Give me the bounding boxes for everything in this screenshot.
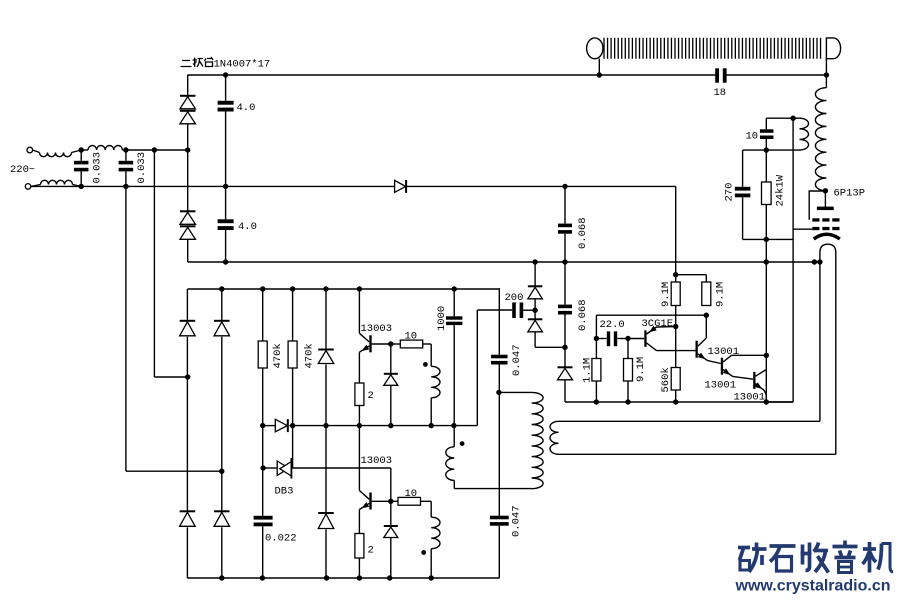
node heater left on y262 rail <box>812 259 817 264</box>
inductor filter choke Lc <box>88 146 122 151</box>
diode D15 <box>528 318 543 320</box>
resistor 9.1M third <box>627 339 629 359</box>
svg-text:10: 10 <box>405 488 418 500</box>
resistor 10 upper <box>400 340 422 348</box>
node x534 mid <box>532 308 537 313</box>
svg-text:470k: 470k <box>304 343 316 368</box>
terminal AC neutral <box>25 184 31 190</box>
wire mid rail y425 left part <box>263 425 276 427</box>
wire grid feed line y118 <box>766 117 799 119</box>
node Q1 base junction <box>388 341 393 346</box>
tube cathode <box>814 234 840 239</box>
wire bottom rail <box>187 577 499 579</box>
wire top filter node <box>81 149 88 151</box>
node DB3 wire tap <box>260 465 265 470</box>
diode D2 <box>180 110 196 112</box>
node plate junction <box>823 188 828 193</box>
svg-text:200: 200 <box>505 292 524 304</box>
capacitor 200 <box>512 302 516 318</box>
node emitter junction 3CG1E <box>673 324 678 329</box>
wire antenna coil left lead <box>598 59 600 76</box>
capacitor 0.068 upper <box>564 186 566 223</box>
svg-text:4.0: 4.0 <box>238 221 257 233</box>
diode D11 (series in mid rail) <box>275 419 287 432</box>
wire y150 cathode line <box>743 149 801 151</box>
wire mid rail y425 right part <box>289 425 477 427</box>
capacitor 0.022 <box>254 516 273 520</box>
node x766 ground <box>764 399 769 404</box>
wire bridge column bottom <box>187 239 189 262</box>
svg-text:9.1M: 9.1M <box>715 282 727 307</box>
capacitor 4.0 lower <box>218 219 234 223</box>
node Q5 collector on x766 <box>764 353 769 358</box>
capacitor 1000 <box>452 286 457 291</box>
capacitor 0.068 lower <box>558 305 572 309</box>
svg-text:13001: 13001 <box>705 380 737 392</box>
svg-text:www.crystalradio.cn: www.crystalradio.cn <box>735 578 891 595</box>
svg-text:2: 2 <box>368 545 374 557</box>
diode D16 <box>558 366 573 368</box>
wire x534 column <box>532 259 537 264</box>
node x766 y150 <box>764 147 769 152</box>
svg-text:0.033: 0.033 <box>92 152 104 184</box>
svg-text:13003: 13003 <box>361 455 393 467</box>
node y471 on second column <box>219 469 224 474</box>
wire long vertical x793 (grid line) <box>792 118 794 401</box>
svg-text:270: 270 <box>724 183 736 202</box>
svg-text:13001: 13001 <box>708 346 740 358</box>
svg-text:0.068: 0.068 <box>577 217 589 249</box>
wire to second filter node <box>122 149 187 151</box>
node Q2 base junction <box>388 499 393 504</box>
wire y239 line <box>743 238 794 240</box>
capacitor 18 (series in top rail) <box>715 68 719 82</box>
capacitor 22.0 <box>596 338 606 340</box>
diode D5 <box>180 320 196 322</box>
transformer T1 primary <box>499 391 532 393</box>
wire x499 column from box rail <box>498 288 501 290</box>
label diodes 1N4007*17 <box>181 57 214 67</box>
resistor 9.1M second <box>702 282 711 306</box>
capacitor 0.047 lower <box>490 516 509 520</box>
wire DB3 branch <box>263 467 277 469</box>
node filter tap x154 <box>152 147 157 152</box>
capacitor 0.033 first <box>74 161 89 165</box>
diode D1 <box>180 95 196 97</box>
capacitor 0.033 second <box>123 147 128 152</box>
node filter cap1 top <box>79 147 84 152</box>
svg-text:DB3: DB3 <box>275 486 294 498</box>
svg-text:470k: 470k <box>272 343 284 368</box>
tube heater <box>820 244 836 454</box>
wire AC bottom rail continues <box>407 185 676 187</box>
resistor 2 upper <box>355 383 364 406</box>
watermark crystalradio logo <box>738 541 893 573</box>
svg-text:220~: 220~ <box>10 164 35 176</box>
svg-text:24k1W: 24k1W <box>775 174 787 206</box>
svg-text:0.033: 0.033 <box>136 152 148 184</box>
wire oscillator ground rail y402 <box>565 401 793 403</box>
inductor base drive coil L2 <box>430 344 432 366</box>
wire antenna coil right lead <box>825 59 827 75</box>
svg-text:10: 10 <box>405 331 418 343</box>
svg-text:3CG1E: 3CG1E <box>642 318 674 330</box>
capacitor 4.0 upper <box>225 75 227 101</box>
node split to 9.1M pair <box>673 272 678 277</box>
node x565 y347 <box>562 345 567 350</box>
diac DB3 <box>277 461 289 476</box>
node bottom rail / 0.068a <box>562 184 567 189</box>
wire second column x221.8 <box>219 286 224 291</box>
svg-text:9.1M: 9.1M <box>660 282 672 307</box>
wire corner x676 down <box>675 186 677 282</box>
node bottom rail / cap C4.0b <box>223 184 228 189</box>
diode D4 <box>180 225 196 227</box>
svg-text:13001: 13001 <box>734 392 766 404</box>
node top rail / cap C4.0a <box>223 72 228 77</box>
resistor 470k second <box>290 286 295 291</box>
node x793 top <box>790 116 795 121</box>
tube screen grid row <box>812 218 819 221</box>
svg-text:560k: 560k <box>660 367 672 392</box>
inductor feedback winding L5 (grid) <box>800 118 809 150</box>
svg-text:0.068: 0.068 <box>577 299 589 331</box>
svg-text:1.1M: 1.1M <box>582 358 594 383</box>
node top rail right / coil right lead <box>824 72 829 77</box>
diode D7 <box>214 320 230 322</box>
svg-text:0.047: 0.047 <box>511 344 523 376</box>
svg-text:4.0: 4.0 <box>237 102 256 114</box>
wire corner x793 bottom <box>766 401 793 403</box>
node mid rail left end <box>260 423 265 428</box>
node 22.0 right / Q3 base <box>625 336 630 341</box>
diode D14 <box>528 285 543 287</box>
wire secondary bottom to heater leg <box>559 453 836 455</box>
node x565 on y262 rail <box>562 259 567 264</box>
capacitor 0.047 upper <box>491 355 508 359</box>
diode D-rail (series, pointing right) <box>395 180 406 192</box>
transformer T1 secondary <box>550 421 559 454</box>
resistor 24k1W <box>765 150 767 182</box>
wire oscillator frame y315 <box>596 314 706 316</box>
diode D9 x326 <box>323 286 328 291</box>
svg-text:0.022: 0.022 <box>265 533 297 545</box>
node transformer primary top <box>496 390 501 395</box>
wire x766 column to oscillator <box>765 239 767 402</box>
terminal AC live <box>27 147 33 153</box>
wire secondary top to heater leg <box>559 420 820 422</box>
svg-text:9.1M: 9.1M <box>635 357 647 382</box>
svg-text:0.047: 0.047 <box>511 505 523 537</box>
svg-text:18: 18 <box>714 87 727 99</box>
resistor 10 lower <box>398 497 421 505</box>
wire lower box left column <box>186 289 188 321</box>
zener D13 lower <box>390 501 392 526</box>
diode D3 <box>180 210 196 212</box>
tube anode <box>824 191 826 207</box>
wire DB3 to Q2 base node <box>291 467 390 469</box>
wire corner up to 200-cap line <box>476 310 478 426</box>
node 22.0 left <box>594 336 599 341</box>
node 9.1M second bottom <box>704 313 709 318</box>
wire bridge column top <box>187 75 189 96</box>
resistor 470k first <box>260 286 265 291</box>
node y377 on left column <box>185 374 190 379</box>
wire lower box top rail y289 <box>187 288 500 290</box>
inductor base drive coil L3 <box>430 501 432 517</box>
diode D10 x326 lower <box>318 512 334 514</box>
node x766 y262 <box>764 259 769 264</box>
wire AC bottom rail <box>31 185 395 187</box>
wire between diode pairs <box>187 124 189 212</box>
inductor feedback winding L4 <box>460 441 465 446</box>
node top rail / antenna coil left lead <box>597 72 602 77</box>
antenna solenoid coil L1 <box>604 38 821 59</box>
inductor line choke Lb (bottom) <box>31 185 41 187</box>
diode D6 <box>180 510 196 512</box>
wire from filter x126 down to y471 <box>125 186 127 471</box>
wire from filter x154 down to y377 <box>153 150 155 377</box>
wire anode-screen bracket <box>809 191 825 220</box>
svg-text:1N4007*17: 1N4007*17 <box>214 59 271 71</box>
zener D12 upper <box>390 344 392 374</box>
diode D8 <box>214 510 230 512</box>
wire top rail B+ <box>187 74 716 76</box>
capacitor 10 <box>765 118 767 129</box>
wire control grid lead <box>793 228 812 230</box>
resistor 2 lower <box>355 534 364 559</box>
resistor 1.1M <box>595 339 597 359</box>
svg-text:6P13P: 6P13P <box>834 188 866 200</box>
node bridge mid / filter line <box>185 147 190 152</box>
node filter cap1 bottom <box>79 184 84 189</box>
capacitor 270 <box>742 150 744 187</box>
svg-text:10: 10 <box>746 131 759 143</box>
wire mid rail y262 <box>188 261 820 263</box>
svg-text:1000: 1000 <box>436 306 448 331</box>
inductor line choke La (top) <box>33 150 40 153</box>
resistor 560k <box>671 368 680 391</box>
svg-text:13003: 13003 <box>361 323 393 335</box>
svg-text:2: 2 <box>368 390 374 402</box>
inductor plate coil L6 <box>815 88 826 191</box>
tube control grid row <box>812 227 819 230</box>
svg-text:22.0: 22.0 <box>600 319 625 331</box>
resistor 9.1M first <box>671 282 680 306</box>
